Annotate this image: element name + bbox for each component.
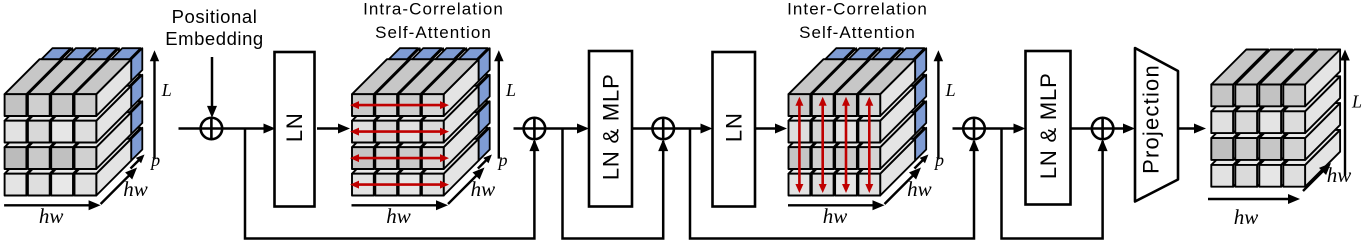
svg-text:p: p [933,150,944,170]
svg-text:LN: LN [282,112,307,142]
svg-text:hw: hw [1234,205,1259,229]
svg-text:Inter-Correlation: Inter-Correlation [787,0,928,19]
svg-text:p: p [149,150,160,170]
wire: LN box 1 to intra cube [317,124,350,134]
svg-text:LN & MLP: LN & MLP [1036,72,1061,179]
add node 1 (circled plus) [201,118,223,140]
axis arrows and labels inter cube [788,50,956,228]
axis arrows and labels input cube [4,50,172,228]
wire: skip connection 4 [1002,129,1108,239]
wire: add node 5 to projection [1113,124,1135,134]
wire: skip connection 1 [245,129,539,239]
svg-text:hw: hw [39,204,64,228]
label: Inter-Correlation Self-Attention [787,0,928,42]
axis arrows and labels intra cube [352,50,517,228]
svg-text:hw: hw [1327,163,1352,187]
svg-text:L: L [505,80,516,100]
wire: add node 2 to LN-MLP box 1 [545,124,589,134]
wire: add node 4 to LN-MLP box 2 [985,124,1026,134]
wire: skip connection 3 [690,129,979,239]
wire: LN box 2 to inter cube [755,124,787,134]
wire: LN-MLP box 1 to add node 3 [632,127,653,130]
svg-text:Embedding: Embedding [165,28,264,49]
svg-text:LN & MLP: LN & MLP [598,73,623,180]
LN box 1 [275,52,315,207]
svg-text:LN: LN [722,112,747,142]
svg-text:L: L [1351,92,1362,112]
svg-text:Self-Attention: Self-Attention [799,23,916,42]
svg-text:hw: hw [823,204,848,228]
projection trapezoid [1135,48,1178,202]
svg-text:L: L [161,80,172,100]
LN & MLP box 1 [589,51,632,207]
wire: skip connection 2 [563,129,669,239]
add node 4 (circled plus) [963,118,985,140]
wire: add node 1 to LN box 1 [222,124,276,134]
svg-text:hw: hw [386,204,411,228]
input tensor cube [5,48,143,195]
axis arrows and labels output cube [1208,50,1362,230]
add node 3 (circled plus) [652,118,674,140]
svg-text:Positional: Positional [172,6,258,27]
wire: add node 3 to LN box 2 [674,124,713,134]
svg-text:Intra-Correlation: Intra-Correlation [363,0,504,19]
add node 2 (circled plus) [524,118,546,140]
wire: projection to output cube [1177,124,1206,134]
svg-text:hw: hw [123,177,148,201]
svg-text:L: L [945,80,956,100]
label: Positional Embedding [165,6,264,49]
wire: LN-MLP box 2 to add node 5 [1071,127,1093,130]
wire: positional embedding into add node 1 [207,57,217,118]
svg-text:Projection: Projection [1139,64,1164,174]
label: Intra-Correlation Self-Attention [363,0,504,42]
output tensor cube [1211,50,1340,187]
intra-correlation cube [352,48,490,195]
svg-text:Self-Attention: Self-Attention [375,23,492,42]
svg-text:hw: hw [471,177,496,201]
wire: inter cube to add node 4 [953,127,965,130]
red inter-correlation arrows (vertical) [795,97,873,193]
wire: intra cube to add node 2 [514,127,525,130]
inter-correlation cube [789,48,927,195]
LN & MLP box 2 [1026,51,1071,205]
wire: input to add node 1 [179,127,202,130]
red intra-correlation arrows (horizontal) [350,101,449,189]
LN box 2 [713,52,756,207]
svg-text:hw: hw [907,177,932,201]
svg-text:p: p [497,150,508,170]
add node 5 (circled plus) [1092,118,1114,140]
